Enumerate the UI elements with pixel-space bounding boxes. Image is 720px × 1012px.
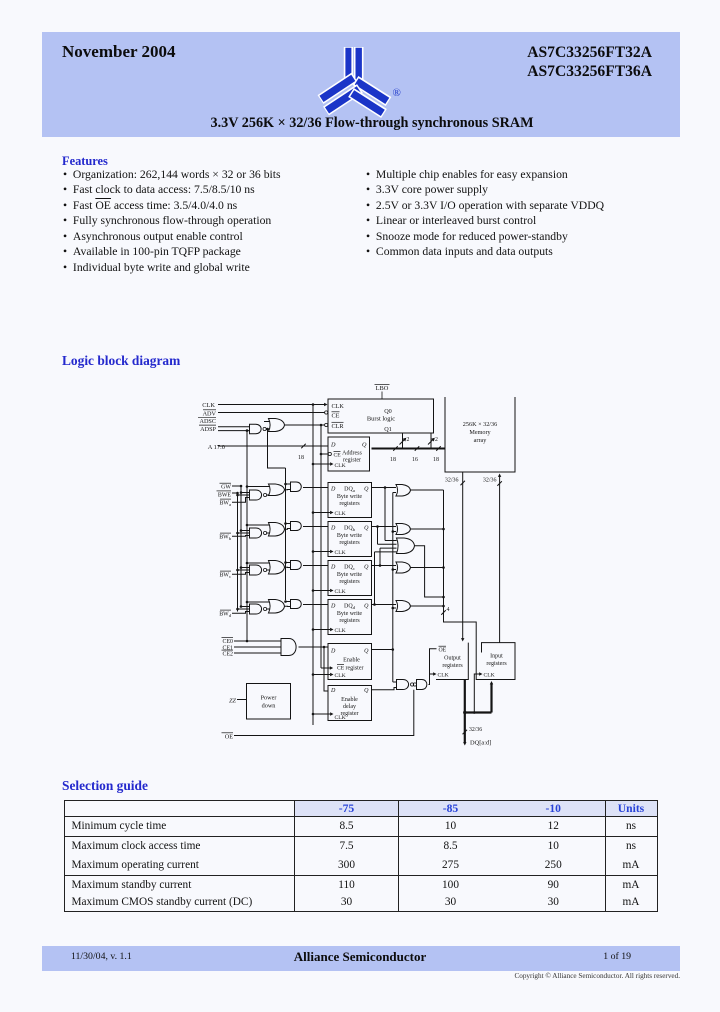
pin Q of byte write register b — [364, 525, 369, 531]
gate and output-enable g5 — [413, 680, 427, 690]
svg-text:Q: Q — [364, 486, 369, 492]
wire V1 to gate4 — [393, 681, 397, 683]
svg-text:registers: registers — [339, 501, 360, 507]
svg-text:CLK: CLK — [335, 673, 346, 679]
node ADV input label — [203, 410, 217, 418]
wire DQ up into input registers — [490, 681, 493, 713]
pin CLK of output registers — [430, 672, 449, 678]
svg-text:Q: Q — [364, 688, 369, 694]
wire nand to or row b — [267, 532, 270, 534]
gate G1 nand ADSC/ADSP — [250, 424, 267, 433]
wire CE tap to or row c — [246, 562, 270, 565]
wire ADSC tap row a — [284, 483, 290, 486]
pin Q of byte write register d — [364, 603, 369, 609]
svg-text:256K × 32/36: 256K × 32/36 — [463, 421, 497, 428]
svg-text:Q: Q — [364, 564, 369, 570]
wire GW to bus — [232, 485, 242, 488]
burst logic title — [367, 416, 395, 423]
wire CLK vertical distribution bus — [312, 405, 314, 726]
wire CE tap to or row d — [246, 601, 270, 604]
gate or output-column row c — [396, 562, 411, 573]
enable delay register title — [341, 697, 359, 717]
pin CLK of enable delay register — [330, 712, 346, 721]
wire GW tap row c — [240, 566, 250, 569]
svg-text:BWd: BWd — [219, 612, 232, 619]
svg-text:DQa: DQa — [344, 486, 355, 493]
wire CLK stub row b — [312, 550, 330, 553]
node OE input label — [222, 733, 234, 741]
node BWE input label — [217, 491, 232, 499]
wire ADSC-ADSP vertical bus — [285, 468, 287, 600]
svg-text:CE: CE — [332, 413, 340, 420]
footer page number — [500, 951, 631, 962]
svg-text:register: register — [346, 666, 364, 672]
features right column — [366, 167, 604, 260]
svg-text:D: D — [330, 649, 336, 655]
wire enable delay Q to gate — [372, 688, 397, 690]
svg-text:BWb: BWb — [219, 535, 232, 542]
svg-text:down: down — [262, 703, 276, 710]
svg-text:Q: Q — [362, 441, 367, 448]
date — [62, 42, 175, 62]
wire CE1 to and gate — [234, 646, 281, 648]
svg-text:CLK: CLK — [335, 589, 346, 595]
wire GW tap row b — [240, 529, 250, 532]
output registers U11 box open-left-top — [436, 643, 468, 680]
pin Q of byte write register c — [364, 564, 369, 570]
pin Q of address register — [362, 441, 367, 448]
wire or to gate3 row d — [285, 605, 291, 607]
wire BWE vertical bus — [237, 493, 239, 612]
wire ADSC to gate G1 — [218, 426, 250, 428]
svg-text:4: 4 — [447, 607, 450, 613]
wire ADSC tap row d — [284, 600, 290, 603]
wire BWa to nand — [232, 498, 250, 503]
pin CLK of byte write register d — [330, 628, 346, 634]
wire or-column out row c — [411, 566, 445, 569]
node BWa input label — [219, 499, 231, 507]
wire GW vertical bus — [240, 486, 242, 608]
pin DQd label — [344, 603, 356, 610]
logo arm lower-left upper stripe — [321, 77, 355, 100]
wire G1 tap down to vertical bus VB285 — [268, 429, 286, 468]
pin Q of enable delay register — [364, 688, 369, 694]
wire write-enable vertical V2 — [444, 490, 477, 653]
selection guide table — [64, 800, 658, 912]
svg-text:32/36: 32/36 — [445, 478, 459, 484]
wire BWE tap row a — [236, 494, 249, 497]
svg-text:D: D — [330, 564, 336, 570]
wire chip-enable to enable register D — [299, 646, 329, 648]
wire CE stub from load line — [320, 453, 329, 456]
features heading — [62, 154, 108, 169]
footer company name — [160, 949, 560, 965]
wire or to gate3 row b — [285, 528, 291, 531]
wire big-or input from byte c — [380, 548, 397, 565]
svg-text:Byte write: Byte write — [337, 611, 362, 617]
gate nand byte-write row a — [250, 490, 267, 500]
wire big-or input from byte a — [385, 488, 397, 541]
pin DQa label — [344, 486, 355, 493]
wire CE stub from load bus — [321, 666, 333, 669]
wire or-column out row d — [411, 605, 445, 608]
pin CLR of burst logic — [332, 422, 345, 430]
svg-text:array: array — [474, 437, 488, 444]
wire CLK stub row c — [312, 589, 330, 592]
svg-text:CLK: CLK — [202, 402, 215, 409]
wire address bus to memory — [372, 448, 446, 450]
gate or byte-write row a — [269, 484, 285, 496]
wire gate3 to register D row d — [303, 604, 328, 606]
wire big-or output to V2 — [415, 546, 445, 599]
svg-text:delay: delay — [343, 704, 356, 710]
svg-text:Byte write: Byte write — [337, 494, 362, 500]
wire enable vertical V1 — [392, 493, 394, 683]
wire GW tap row d — [240, 605, 250, 608]
enable register title — [337, 658, 364, 672]
logo registered trademark — [393, 87, 401, 99]
svg-text:DQc: DQc — [344, 564, 355, 571]
wire CLK to burst logic — [218, 403, 328, 406]
gate or output-column row d — [396, 601, 411, 612]
node A17:0 address input label — [208, 444, 225, 451]
wire BWE tap row b — [236, 532, 249, 535]
wire BWc to nand — [232, 573, 250, 575]
bus slash 18 at memory — [433, 446, 441, 463]
byte write register U5 box — [328, 522, 372, 557]
gate or output-column row a — [396, 485, 411, 497]
pin Q1 of burst logic — [384, 426, 392, 433]
pin D of byte write register b — [330, 525, 336, 531]
pin OE of output registers — [439, 646, 447, 653]
memory array U3 box open-top — [445, 397, 515, 472]
wire ZZ to power down — [237, 699, 247, 701]
svg-text:Power: Power — [261, 695, 277, 702]
wire BWE tap row d — [236, 608, 249, 611]
svg-text:18: 18 — [390, 457, 396, 463]
wire big-or input from byte b — [378, 527, 397, 545]
svg-text:CLK: CLK — [484, 673, 495, 679]
bus slash 18 after address register — [390, 446, 398, 463]
svg-text:A 17:0: A 17:0 — [208, 444, 225, 451]
wire Q byte a to or-column — [372, 486, 397, 489]
wire CE tap to or row b — [246, 524, 270, 527]
svg-text:Q: Q — [364, 649, 369, 655]
wire G1 output to G2 — [266, 428, 269, 431]
svg-text:Output: Output — [444, 656, 461, 662]
pin D of enable delay register — [330, 688, 336, 694]
svg-text:ADV: ADV — [203, 411, 217, 418]
output registers title — [442, 656, 463, 670]
svg-text:ZZ: ZZ — [229, 698, 236, 705]
svg-text:18: 18 — [433, 457, 439, 463]
svg-text:CE0: CE0 — [223, 639, 234, 645]
logo arm lower-right upper stripe — [356, 81, 389, 102]
svg-text:registers: registers — [339, 579, 360, 585]
gate big-or write-any — [397, 538, 415, 554]
svg-text:Enable: Enable — [343, 658, 360, 664]
gate nand byte-write row d — [250, 604, 267, 614]
svg-text:LBO: LBO — [376, 385, 389, 392]
byte write register U4 box — [328, 483, 372, 518]
node GW input label — [220, 483, 232, 491]
gate nand byte-write row c — [250, 565, 267, 575]
wire gate3 to register D row c — [303, 565, 328, 567]
svg-text:Q: Q — [364, 525, 369, 531]
wire A17:0 to address register — [218, 445, 328, 447]
svg-text:DQb: DQb — [344, 525, 356, 532]
enable delay register U9 box — [328, 686, 372, 721]
wire GW tap row a — [240, 491, 250, 494]
node ADSP input label — [199, 425, 217, 433]
gate G2 or address-load — [264, 419, 285, 432]
wire nand to or row d — [267, 608, 270, 610]
svg-text:Byte write: Byte write — [337, 572, 362, 578]
logo arm lower-right lower stripe — [351, 93, 384, 114]
company logo — [312, 40, 422, 130]
wire CE0 to and gate — [234, 640, 281, 643]
svg-text:CE2: CE2 — [223, 652, 234, 658]
svg-text:D: D — [330, 688, 336, 694]
wire Q byte c to or-column — [372, 564, 397, 567]
svg-text:DQ[a:d]: DQ[a:d] — [470, 740, 491, 747]
svg-text:2: 2 — [407, 437, 410, 443]
svg-text:D: D — [330, 525, 336, 531]
svg-text:CLK: CLK — [335, 511, 346, 517]
svg-text:D: D — [330, 603, 336, 609]
gate and3 byte-write row c — [291, 561, 302, 570]
power down title — [261, 695, 277, 710]
svg-text:18: 18 — [298, 455, 304, 461]
enable register U8 box — [328, 644, 372, 680]
node ZZ snooze input label — [229, 698, 236, 705]
byte write register c title — [337, 572, 362, 585]
gate nand byte-write row b — [250, 528, 267, 538]
wire CE-combined vertical bus — [246, 431, 248, 641]
pin CLK of burst logic — [332, 403, 345, 410]
wire input registers to memory data in — [498, 474, 501, 643]
logo arm up-left bar — [344, 47, 353, 81]
pin CE of address register — [328, 451, 341, 458]
svg-text:register: register — [343, 458, 361, 464]
svg-text:BWE: BWE — [218, 492, 231, 498]
svg-text:®: ® — [393, 87, 401, 99]
wire BWE to bus — [232, 492, 239, 495]
input registers U12 box notched — [476, 643, 515, 680]
svg-text:BWc: BWc — [219, 573, 231, 580]
wire enable register D to delay D — [323, 646, 328, 691]
wire nand to or row c — [267, 569, 270, 571]
svg-text:Q1: Q1 — [384, 426, 392, 433]
svg-text:Memory: Memory — [469, 429, 491, 436]
node BWc input label — [219, 571, 231, 579]
input registers title — [486, 654, 507, 668]
wire DQ thick output vertical — [463, 680, 466, 746]
pin D of byte write register c — [330, 564, 336, 570]
node CE0 input label — [222, 638, 234, 646]
svg-text:Input: Input — [490, 654, 503, 660]
pin CLK of input registers — [479, 672, 495, 678]
wire or to gate3 row a — [285, 489, 291, 491]
title — [172, 115, 572, 132]
wire gate3 to register D row a — [303, 487, 328, 489]
svg-text:registers: registers — [339, 618, 360, 624]
wire CLK stub enable delay register — [312, 713, 330, 716]
wire DQ thick horizontal — [463, 711, 491, 714]
svg-text:32/36: 32/36 — [483, 478, 497, 484]
wire ADSP to gate G1 — [218, 429, 250, 432]
pin Q of enable register — [364, 649, 369, 655]
pin D of address register — [330, 441, 336, 448]
wire BWE tap row c — [236, 569, 249, 572]
svg-text:Enable: Enable — [341, 697, 358, 703]
svg-text:registers: registers — [486, 661, 507, 667]
node CE1 input label — [223, 645, 234, 651]
svg-text:Address: Address — [342, 451, 362, 457]
wire Q byte b to or-column — [372, 525, 397, 528]
svg-text:CE: CE — [337, 666, 345, 672]
wire or-column out row a — [411, 489, 444, 491]
byte write register d title — [337, 611, 362, 624]
footer copyright — [380, 972, 680, 980]
wire gate3 to register D row b — [303, 526, 328, 528]
bus slash 4 write enables — [441, 607, 449, 615]
svg-text:CLK: CLK — [335, 463, 346, 469]
wire CLK stub enable register — [312, 673, 330, 676]
wire BWb to nand — [232, 535, 250, 538]
svg-text:16: 16 — [412, 457, 418, 463]
pin CLK of address register — [330, 462, 346, 469]
part numbers — [380, 43, 652, 82]
wire Q1 tap 2-bit onto bus — [428, 433, 438, 449]
svg-text:registers: registers — [339, 540, 360, 546]
byte write register U7 box — [328, 600, 372, 635]
gate and3 byte-write row d — [291, 600, 302, 609]
pin DQc label — [344, 564, 355, 571]
bus slash 32/36 memory in — [483, 478, 502, 486]
svg-text:CE: CE — [334, 452, 342, 458]
svg-text:2: 2 — [435, 437, 438, 443]
svg-text:Burst logic: Burst logic — [367, 416, 395, 423]
memory array title — [463, 421, 497, 444]
wire BWd to nand — [232, 612, 250, 614]
node BWd input label — [219, 610, 232, 618]
pin D of enable register — [330, 649, 336, 655]
wire ADSC tap row c — [284, 561, 290, 564]
svg-text:Q: Q — [364, 603, 369, 609]
wire CLK stub row a — [312, 511, 330, 514]
logo arm lower-left lower stripe — [326, 89, 360, 112]
wire CLK stub to address register — [312, 463, 330, 466]
wire or-column out row b — [411, 528, 445, 531]
wire load vertical bus — [320, 425, 322, 668]
wire nand to or row a — [267, 494, 270, 496]
node ADSC input label — [198, 417, 216, 425]
footer band — [42, 946, 680, 971]
pin CLK of enable register — [330, 673, 346, 679]
wire or to gate3 row c — [285, 566, 291, 568]
wire CLK stub row d — [312, 628, 330, 631]
wire V1 taps to or gates — [392, 493, 397, 610]
pin CE of burst logic — [332, 412, 340, 420]
svg-text:Q0: Q0 — [384, 408, 392, 415]
wire Q0 tap 2-bit onto bus — [400, 433, 410, 449]
wire enable register Q to V1 — [372, 648, 395, 651]
svg-text:ADSC: ADSC — [199, 418, 216, 425]
svg-text:OE: OE — [439, 647, 447, 653]
node CE2 input label — [222, 650, 234, 658]
node BWb input label — [219, 533, 232, 541]
footer revision — [71, 951, 132, 962]
wire CE2 to and gate — [234, 652, 281, 654]
gate or byte-write row b — [269, 523, 285, 537]
byte write register U6 box — [328, 561, 372, 596]
svg-text:OE: OE — [225, 734, 233, 741]
features left column — [63, 167, 281, 275]
wire G2 output to burst logic CLR — [285, 423, 328, 426]
bus slash 16 mid — [412, 446, 419, 463]
svg-text:CLK: CLK — [332, 403, 345, 410]
svg-text:ADSP: ADSP — [200, 426, 216, 433]
wire Q byte d to or-column — [372, 603, 397, 606]
svg-text:DQd: DQd — [344, 603, 356, 610]
pin CLK of byte write register b — [330, 550, 346, 556]
bus slash 18 on address input — [298, 444, 306, 461]
gate and3 byte-write row b — [291, 522, 302, 531]
bus slash 32/36 DQ — [463, 727, 483, 734]
wire input register CLK feed — [473, 674, 479, 714]
logic block diagram heading — [62, 353, 180, 369]
gate or byte-write row c — [269, 561, 285, 575]
pin D of byte write register d — [330, 603, 336, 609]
gate or output-column row b — [396, 524, 411, 535]
pin D of byte write register a — [330, 486, 336, 492]
node LBO label — [375, 384, 390, 399]
pin CLK of byte write register c — [330, 589, 346, 595]
byte write register b title — [337, 533, 362, 546]
pin DQb label — [344, 525, 356, 532]
pin Q0 of burst logic — [384, 408, 392, 415]
svg-text:CLK: CLK — [335, 550, 346, 556]
node CLK input label — [202, 402, 215, 409]
wire memory data out to output registers — [461, 472, 464, 642]
byte write register a title — [337, 494, 362, 507]
svg-text:D: D — [330, 486, 336, 492]
wire gate5 output to OE pin — [429, 649, 437, 685]
svg-text:Byte write: Byte write — [337, 533, 362, 539]
logo arm up-right bar — [354, 47, 364, 87]
address register title — [342, 451, 362, 464]
gate and3 byte-write row a — [291, 482, 302, 492]
pin CLK of byte write register a — [330, 511, 346, 517]
svg-text:D: D — [330, 441, 336, 448]
wire ADSC tap row b — [284, 522, 290, 525]
header band — [42, 32, 680, 137]
pin Q of byte write register a — [364, 486, 369, 492]
svg-text:GW: GW — [221, 485, 231, 491]
svg-text:CLK: CLK — [335, 628, 346, 634]
svg-text:CLK: CLK — [438, 673, 449, 679]
svg-text:32/36: 32/36 — [469, 727, 482, 733]
svg-text:registers: registers — [442, 663, 463, 669]
wire OE line — [234, 690, 414, 736]
svg-text:BWa: BWa — [219, 501, 231, 508]
wire big-or input from byte d — [375, 552, 397, 605]
node DQ pad label — [470, 740, 491, 747]
selection guide heading — [62, 778, 148, 794]
wire CE tap to or row a — [246, 485, 270, 488]
svg-text:CLR: CLR — [332, 423, 345, 430]
